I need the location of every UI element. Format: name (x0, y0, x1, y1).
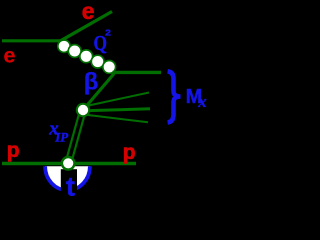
wire: scattered electron (61, 12, 113, 41)
svg-text:t: t (66, 172, 75, 201)
node: X-system vertex (77, 104, 89, 116)
pomeron double line (68, 110, 83, 163)
node: proton vertex (62, 157, 75, 170)
photon coil (58, 40, 116, 73)
wire: incoming electron (2, 39, 61, 42)
wire: quark to blob (83, 74, 114, 110)
wire: proton line (2, 162, 136, 165)
label box for t (61, 169, 77, 200)
svg-text:x: x (197, 92, 207, 111)
svg-text:e: e (82, 0, 95, 24)
wire: X fan line 3 (84, 115, 148, 123)
wire: struck quark (113, 71, 162, 74)
brace for M_X (168, 71, 181, 122)
svg-text:p: p (123, 141, 136, 164)
svg-text:p: p (7, 139, 20, 162)
wire: X fan line 1 (84, 93, 149, 107)
svg-text:e: e (4, 43, 16, 67)
svg-text:IP: IP (54, 130, 69, 145)
proton blob (45, 166, 90, 190)
svg-text:β: β (84, 69, 99, 96)
svg-text:2: 2 (105, 28, 111, 38)
wire: X fan line 2 (84, 109, 150, 111)
